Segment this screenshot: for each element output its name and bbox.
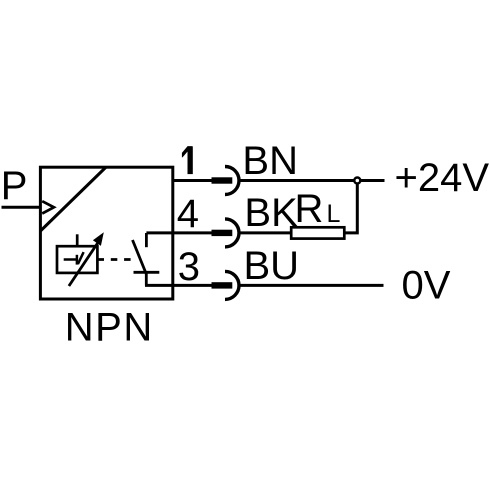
svg-text:L: L <box>327 200 341 228</box>
dashed actuation link <box>98 258 132 261</box>
switch blade drop <box>145 272 148 285</box>
switch top contact <box>145 233 148 247</box>
connector pin 3 <box>212 282 233 288</box>
sensor body box <box>40 167 172 299</box>
transducer diagonal <box>40 168 105 232</box>
setpoint box <box>57 246 97 273</box>
svg-text:BN: BN <box>242 139 298 183</box>
adjustment arrowhead <box>93 232 104 246</box>
wire BN <box>239 179 384 182</box>
switch contact T-bar <box>134 271 160 274</box>
setpoint box stub <box>76 234 79 247</box>
setpoint inner bar <box>76 255 79 265</box>
svg-text:3: 3 <box>178 245 200 289</box>
setpoint inner arrow line <box>64 258 77 261</box>
setpoint inner diagonal <box>78 252 84 264</box>
svg-text:0V: 0V <box>402 264 451 308</box>
pin 1 label <box>182 146 193 174</box>
connector pin 1 <box>212 177 233 183</box>
wire pin1 <box>173 179 213 182</box>
resistor RL <box>291 227 344 238</box>
svg-text:+24V: +24V <box>395 156 490 200</box>
connector socket 3 <box>225 271 239 299</box>
wire BU <box>239 284 383 287</box>
wire BK <box>239 231 291 234</box>
svg-text:R: R <box>295 187 324 231</box>
svg-text:BU: BU <box>244 244 300 288</box>
connector socket 1 <box>225 167 239 195</box>
connector socket 4 <box>225 219 239 247</box>
svg-text:NPN: NPN <box>65 306 154 350</box>
wire node to resistor <box>344 181 357 233</box>
node junction on +24V rail <box>354 178 360 184</box>
arrowhead P input <box>42 201 54 213</box>
svg-text:4: 4 <box>177 192 199 236</box>
connector pin 4 <box>212 230 233 236</box>
svg-text:P: P <box>1 164 28 208</box>
wire P input <box>2 206 41 209</box>
wire pin3 inner <box>145 284 213 287</box>
adjustment arrow shaft <box>69 243 98 287</box>
wire pin4 inner <box>146 231 212 234</box>
switch blade <box>133 240 147 274</box>
